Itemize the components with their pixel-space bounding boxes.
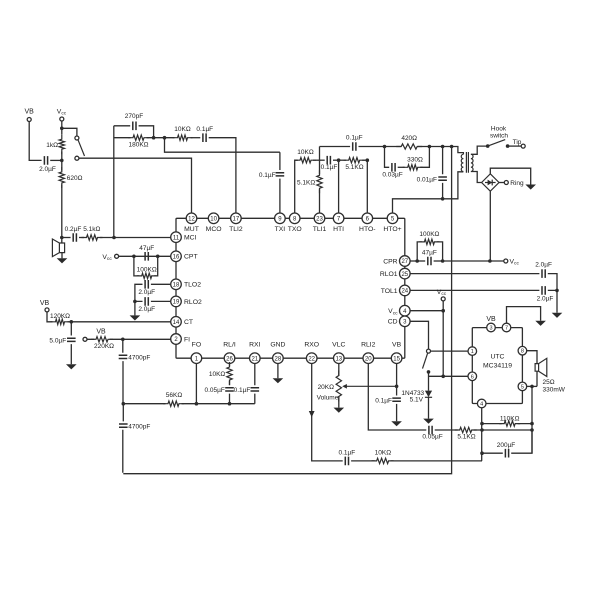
wire 270pF right drop [139, 126, 154, 138]
resistor 100KΩ (CPT) [134, 256, 158, 276]
capacitor 2.0µF (TOL1) [542, 286, 545, 295]
junction 0.01uF bottom [441, 197, 445, 201]
junction hook switch pivot [486, 144, 490, 148]
svg-text:MCO: MCO [206, 226, 222, 233]
svg-text:330Ω: 330Ω [407, 157, 423, 164]
wire 0.2uF to 5.1k [79, 237, 84, 239]
capacitor 47µF (CPR) [428, 257, 431, 266]
svg-text:120KΩ: 120KΩ [50, 313, 70, 320]
wire TLI1 riser [319, 189, 321, 213]
diode bridge (polarity guard) [482, 174, 499, 191]
svg-text:0.1µF: 0.1µF [196, 126, 213, 133]
pin 5 HTO+ [387, 213, 398, 224]
wire mute line to MUT pin [79, 158, 192, 213]
pin 12 MUT [186, 213, 197, 224]
svg-text:RLI2: RLI2 [361, 341, 376, 348]
wire bridge to Ring [499, 182, 504, 184]
svg-text:16: 16 [173, 255, 180, 261]
svg-text:3: 3 [489, 326, 492, 332]
pin 25 RLO1 [400, 268, 411, 279]
svg-text:4: 4 [480, 402, 483, 408]
wire FO pin down [195, 364, 197, 404]
capacitor 4700pF (lower) [119, 424, 128, 427]
wire contact down [428, 372, 430, 391]
svg-text:24: 24 [401, 289, 408, 295]
resistor 5.1KΩ (TLI1) [317, 170, 322, 193]
svg-text:620Ω: 620Ω [67, 175, 83, 182]
capacitor 2.0µF (TLO2) [145, 280, 148, 289]
pin 23 TLI1 [314, 213, 325, 224]
wire 5.1K to HTO- junction [362, 159, 367, 161]
svg-text:Volume: Volume [317, 395, 339, 402]
CD switch contact [427, 370, 431, 374]
IC U2 UTC MC34119 outline [472, 328, 522, 404]
resistor 420Ω [396, 144, 422, 149]
wire Vcc rail [443, 260, 504, 262]
wire secondary bottom to bridge [471, 172, 482, 183]
junction Vcc/1k/switch [60, 127, 64, 131]
svg-text:RLO1: RLO1 [380, 271, 398, 278]
wire vertical MCI feedback [113, 126, 115, 238]
resistor 5.1KΩ (HTI-HTO) [344, 158, 365, 163]
wire VB 220K to FI pin [87, 338, 171, 340]
capacitor 270pF [133, 122, 136, 131]
resistor 100KΩ (CPR) [417, 242, 442, 261]
svg-text:0.03µF: 0.03µF [382, 172, 402, 179]
ground (zener) [423, 419, 434, 424]
svg-text:6: 6 [471, 374, 474, 380]
svg-text:VB: VB [96, 329, 106, 336]
wire 5.1K to amp nodes [474, 429, 532, 431]
wire branch down to TXI line [165, 138, 280, 153]
pin U2-1 [468, 347, 477, 356]
junction 420 right [428, 145, 432, 149]
wire 330 branch down [385, 147, 390, 168]
resistor 10KΩ (RXO) [372, 458, 394, 463]
mute switch (top-left) [75, 136, 79, 140]
junction mic node [60, 236, 64, 240]
svg-text:1: 1 [471, 349, 474, 355]
svg-text:47µF: 47µF [422, 250, 437, 257]
wire to ground (2.0uF) [134, 301, 136, 315]
svg-text:25Ω: 25Ω [543, 379, 555, 386]
svg-text:CD: CD [388, 319, 398, 326]
capacitor 0.1µF (top) [203, 133, 206, 142]
svg-text:UTC: UTC [491, 354, 505, 361]
wire pin26 chain [229, 364, 231, 404]
capacitor 0.1µF (pin21) [251, 388, 260, 391]
wire U2 pin8 to speaker [527, 351, 537, 364]
junction 2.0uF pair [555, 289, 559, 293]
svg-text:5: 5 [521, 384, 524, 390]
svg-text:14: 14 [173, 320, 180, 326]
wire HTI riser [338, 160, 340, 213]
wire TXO riser [295, 160, 298, 213]
wire HTI to 5.1K [339, 159, 347, 161]
svg-text:VB: VB [25, 109, 35, 116]
wire 0.1uF to 10K [351, 460, 375, 462]
wire 0.1uF to 420 [359, 146, 401, 148]
svg-text:Ring: Ring [510, 180, 524, 187]
svg-text:22: 22 [308, 356, 315, 362]
pin 10 MCO [208, 213, 219, 224]
pin 28 GND [273, 353, 284, 364]
svg-text:0.1µF: 0.1µF [375, 397, 392, 404]
svg-text:0.1µF: 0.1µF [234, 387, 251, 394]
svg-text:100KΩ: 100KΩ [419, 231, 439, 238]
junction 5.1K/pin4 stem [480, 428, 484, 432]
svg-text:TXI: TXI [275, 226, 286, 233]
junction 4700pF mid [122, 402, 126, 406]
svg-text:TXO: TXO [288, 226, 302, 233]
svg-text:2.0µF: 2.0µF [39, 166, 56, 173]
svg-text:18: 18 [173, 283, 180, 289]
wire cap to HTI junction [333, 159, 339, 161]
resistor 5.1KΩ (RLI2) [455, 427, 477, 432]
capacitor 0.1µF (TXI) [276, 173, 285, 176]
junction FO node [195, 402, 199, 406]
svg-text:17: 17 [233, 217, 240, 223]
wire Vcc to CPT pin [119, 255, 171, 257]
svg-text:VB: VB [486, 316, 496, 323]
node Vcc (CPT) [115, 254, 119, 258]
pin U2-4 [477, 399, 486, 408]
node Vcc (pin 4 feed) [441, 297, 445, 301]
pin U2-5 [518, 382, 527, 391]
CD switch pivot [427, 349, 431, 353]
resistor 180KΩ [128, 135, 149, 140]
svg-text:47µF: 47µF [139, 245, 154, 252]
capacitor 0.1µF (VB) [392, 398, 401, 401]
svg-text:FO: FO [192, 341, 201, 348]
wire TXI cap to pin 9 [279, 152, 281, 213]
svg-text:12: 12 [188, 217, 195, 223]
svg-text:RXI: RXI [249, 341, 260, 348]
resistor 10KΩ (TXO) [295, 158, 316, 163]
pin 17 TLI2 [231, 213, 242, 224]
svg-text:0.05µF: 0.05µF [422, 434, 442, 441]
wire mic node to 0.2uF [62, 237, 71, 239]
junction Vcc/CD bus [441, 375, 445, 379]
potentiometer 20KΩ Volume [336, 371, 341, 402]
resistor 220KΩ [91, 337, 113, 342]
wire CT line [71, 321, 170, 323]
wire zener to ground [428, 397, 430, 418]
wire Vcc to junction [61, 121, 63, 134]
svg-text:0.1µF: 0.1µF [346, 135, 363, 142]
svg-text:15: 15 [393, 356, 400, 362]
IC U1 MC34118 outline [176, 218, 405, 358]
pin 21 RXI [250, 353, 261, 364]
junction 270pF/180K right [152, 136, 156, 140]
node Ring terminal [504, 181, 508, 185]
pin 18 TLO2 [171, 279, 182, 290]
svg-text:0.05µF: 0.05µF [205, 387, 225, 394]
ground (VB) [391, 421, 402, 426]
wire pivot to U2 pin1 [431, 350, 468, 352]
wire 420 right to transformer [418, 147, 464, 155]
wire VB pin down [396, 364, 398, 396]
pin 20 RLI2 [363, 353, 374, 364]
wire RLO2 cap [135, 300, 170, 302]
wire TLI1 top corner [319, 147, 321, 175]
svg-text:13: 13 [335, 356, 342, 362]
node Vcc (top-left terminal) [60, 117, 64, 121]
svg-text:2.0µF: 2.0µF [138, 289, 155, 296]
svg-text:TLI1: TLI1 [313, 226, 327, 233]
svg-text:MCI: MCI [184, 235, 197, 242]
junction CPR left [415, 259, 419, 263]
svg-text:200µF: 200µF [497, 442, 516, 449]
junction wiper/VB [395, 385, 399, 389]
transformer T1 core [466, 152, 468, 173]
svg-text:4700pF: 4700pF [128, 423, 150, 430]
svg-text:2.0µF: 2.0µF [535, 262, 552, 269]
capacitor 2.0µF (RLO1) [542, 269, 545, 278]
svg-text:VB: VB [40, 300, 50, 307]
resistor 10KΩ (pin26) [227, 362, 232, 385]
junction 120K/5.0uF [70, 320, 74, 324]
wire 56K line [123, 403, 255, 405]
junction node A (1k/2.0uF/620) [60, 159, 64, 163]
svg-text:11: 11 [173, 235, 180, 241]
wire VLC down [338, 364, 340, 377]
capacitor 0.01µF [438, 177, 447, 180]
wire 330 up to junction [420, 147, 429, 168]
svg-text:26: 26 [226, 356, 233, 362]
junction HTI [337, 158, 341, 162]
ground (U2 pin7) [535, 321, 546, 326]
wire 0.03uF to 330 [398, 166, 405, 168]
pin U2-3 [487, 323, 496, 332]
wire bridge bottom to Vcc rail [489, 191, 491, 261]
wire 4700pF chain lower [122, 404, 125, 473]
svg-text:switch: switch [490, 133, 508, 140]
wire 1k to node A [61, 152, 63, 161]
node Vcc (line rail) [504, 259, 508, 263]
wire to pin 11 MCI [100, 237, 171, 239]
pin U2-8 [518, 346, 527, 355]
junction 110K right [530, 422, 534, 426]
wire 110K [482, 423, 532, 425]
wire U2 pin4 stem [481, 408, 483, 461]
wire 270pF top left [114, 125, 130, 127]
svg-text:420Ω: 420Ω [401, 135, 417, 142]
pin 2 FI [171, 334, 182, 345]
svg-text:19: 19 [173, 300, 180, 306]
pin 3 CD [400, 316, 411, 327]
resistor 10KΩ (top) [173, 135, 193, 140]
wire U2 pin5 [527, 385, 537, 387]
svg-text:MUT: MUT [184, 226, 199, 233]
resistor 56KΩ [163, 401, 184, 406]
svg-text:220KΩ: 220KΩ [94, 343, 114, 350]
capacitor 5.0µF [67, 338, 76, 341]
resistor 330Ω [403, 165, 423, 170]
ground (microphone) [57, 258, 68, 263]
svg-text:RLO2: RLO2 [184, 299, 202, 306]
svg-text:10KΩ: 10KΩ [174, 126, 191, 133]
capacitor 4700pF (upper) [119, 355, 128, 358]
wire 620 down to mic node [61, 160, 63, 243]
pin 19 RLO2 [171, 296, 182, 307]
wire U2 pin7 to ground [507, 307, 541, 324]
svg-text:TLO2: TLO2 [184, 282, 201, 289]
pin 16 CPT [171, 251, 182, 262]
wire bridge top to ground [490, 168, 530, 184]
svg-text:23: 23 [316, 217, 323, 223]
svg-text:7: 7 [505, 326, 508, 332]
svg-text:10KΩ: 10KΩ [375, 450, 392, 457]
junction 2.0uF pair left [133, 300, 137, 304]
pin 8 TXO [289, 213, 300, 224]
wire 180K right to 10K [147, 137, 175, 139]
ground (volume pot) [334, 408, 345, 413]
wire 10K to 0.1uF cap [313, 159, 325, 161]
pin 6 HTO- [362, 213, 373, 224]
svg-text:0.01µF: 0.01µF [417, 176, 437, 183]
wire speaker to pin5 line [536, 371, 538, 386]
wire GND pin down [277, 364, 279, 379]
wire 2.0uF corner down [548, 274, 557, 291]
pin U2-7 [502, 323, 511, 332]
junction 110K left [480, 422, 484, 426]
wire 10K to 0.1uF [191, 137, 201, 139]
capacitor 2.0µF (top-left) [44, 156, 47, 165]
capacitor 0.1µF (HTI line) [327, 156, 330, 165]
svg-text:MC34119: MC34119 [483, 363, 512, 370]
pin 22 RXO [306, 353, 317, 364]
resistor 120KΩ [51, 319, 70, 324]
junction 47uF left [132, 254, 136, 258]
svg-text:5.0µF: 5.0µF [49, 337, 66, 344]
junction 26 node [228, 402, 232, 406]
svg-text:CPT: CPT [184, 254, 198, 261]
pin 13 VLC [334, 353, 345, 364]
svg-text:5.1V: 5.1V [410, 396, 424, 403]
svg-text:20: 20 [365, 356, 372, 362]
capacitor 0.03µF [392, 163, 395, 172]
capacitor 47µF (CPT) [145, 252, 148, 261]
svg-text:10KΩ: 10KΩ [209, 371, 226, 378]
svg-text:20KΩ: 20KΩ [318, 384, 335, 391]
wire Vcc feed down [442, 301, 444, 376]
wire 200uF [482, 430, 532, 453]
wire pin21 chain [254, 364, 256, 404]
wire 2.0uF join [548, 290, 557, 312]
hook switch [488, 140, 506, 147]
svg-text:4700pF: 4700pF [128, 355, 150, 362]
wire 0.01uF line [442, 147, 444, 199]
svg-text:330mW: 330mW [543, 386, 566, 393]
wire RLI2 down-right [368, 364, 426, 431]
capacitor 200µF [505, 449, 508, 458]
pin 7 HTI [333, 213, 344, 224]
svg-text:10KΩ: 10KΩ [297, 149, 314, 156]
speaker SP1 25Ω 330mW [535, 358, 547, 376]
svg-text:HTI: HTI [333, 226, 344, 233]
svg-text:100KΩ: 100KΩ [137, 267, 157, 274]
svg-text:25: 25 [401, 272, 408, 278]
resistor 620Ω [59, 167, 64, 188]
junction pin4 wire [441, 309, 445, 313]
svg-text:TLI2: TLI2 [229, 226, 243, 233]
pin 26 RL/I [224, 353, 235, 364]
pin 15 VB [391, 353, 402, 364]
svg-text:2.0µF: 2.0µF [537, 296, 554, 303]
wire HTO- riser [366, 160, 368, 213]
wire 10K to pin4 stem [391, 460, 482, 462]
svg-text:0.2µF: 0.2µF [65, 226, 82, 233]
wire 0.1uF to TLI2 pin [209, 138, 236, 213]
capacitor 0.1µF (RXO) [345, 457, 348, 466]
wire VB cap to ground [396, 404, 398, 421]
ground (line side) [525, 185, 536, 190]
svg-text:0.1µF: 0.1µF [259, 172, 276, 179]
junction 200uF left [480, 451, 484, 455]
wire VB down to 2.0uF [29, 122, 41, 161]
svg-text:8: 8 [521, 349, 524, 355]
microphone MK1 [52, 239, 64, 257]
svg-text:28: 28 [275, 356, 282, 362]
svg-text:VLC: VLC [332, 341, 345, 348]
node VB (top-left terminal) [27, 118, 31, 122]
wire CD bus [429, 375, 468, 377]
junction HTO- [366, 158, 370, 162]
junction FI/4700pF [121, 338, 125, 342]
wire CD pin to switch [410, 321, 428, 349]
wire spk stem down [531, 386, 533, 453]
wire top line to 0.1uF [320, 146, 351, 148]
pin 24 TOL1 [400, 285, 411, 296]
ground (2.0uF pair) [552, 313, 563, 318]
wire pot to ground [338, 396, 340, 408]
pin 11 MCI [171, 232, 182, 243]
svg-text:RL/I: RL/I [223, 341, 236, 348]
wire pin 4 Vcc [410, 310, 443, 312]
junction CPR right [441, 259, 445, 263]
transformer T1 secondary [471, 154, 473, 171]
svg-text:21: 21 [251, 356, 258, 362]
pin 1 FO [191, 353, 202, 364]
wire 180K left [114, 137, 131, 139]
wire CPR pin to network [410, 260, 425, 262]
svg-text:Hook: Hook [491, 126, 507, 133]
junction 5.1K/spk stem [530, 428, 534, 432]
wire 47uF right [434, 260, 443, 262]
junction pin5/stem [530, 385, 534, 389]
pin U2-6 [468, 372, 477, 381]
capacitor 0.05µF (RLI2) [429, 426, 432, 435]
svg-text:CPR: CPR [383, 258, 397, 265]
ground (5.0uF) [66, 364, 77, 369]
svg-text:5.1kΩ: 5.1kΩ [83, 226, 100, 233]
wire 0.05uF to 5.1K [435, 429, 458, 431]
svg-text:0.1µF: 0.1µF [321, 164, 338, 171]
svg-text:110KΩ: 110KΩ [500, 416, 520, 423]
resistor 110KΩ [499, 421, 520, 426]
capacitor 0.1µF (line) [353, 142, 356, 151]
svg-text:1kΩ: 1kΩ [46, 142, 58, 149]
wire 5.0uF [70, 322, 72, 365]
pin 9 TXI [275, 213, 286, 224]
svg-text:Tip: Tip [513, 139, 522, 146]
svg-text:RXO: RXO [304, 341, 319, 348]
junction 47uF right [156, 254, 160, 258]
svg-text:5.1KΩ: 5.1KΩ [345, 164, 363, 171]
wire RXO down-right [312, 364, 343, 461]
wire TOL1 to 2.0uF [410, 289, 539, 291]
